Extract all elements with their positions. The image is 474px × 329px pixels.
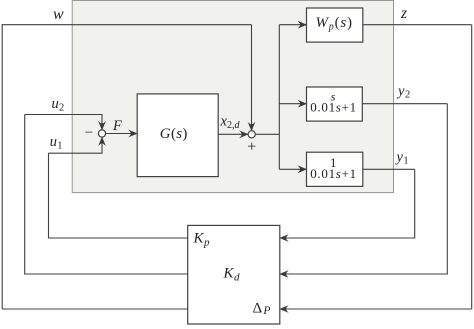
block Wp(s) (307, 8, 363, 42)
wire into s/(0.01s+1) (279, 103, 306, 105)
wire into Wp(s) (279, 24, 306, 26)
svg-text:u1: u1 (50, 134, 63, 151)
wire z right vertical down (471, 25, 473, 309)
arrow into Wp(s) (298, 21, 308, 29)
controller block K (188, 225, 280, 324)
wire bottom-left into controller port 3 (2, 308, 188, 310)
wire F from S1 to G(s) (106, 133, 138, 135)
arrow into controller Kd input (279, 270, 289, 278)
svg-text:F: F (112, 118, 122, 134)
svg-text:−: − (85, 125, 93, 141)
wire y1 output (363, 168, 415, 170)
wire S2 output to branch node (255, 133, 279, 135)
wire u1 left loop to controller port 1 (49, 153, 188, 238)
wire x2d from G(s) to S2 (218, 133, 248, 135)
svg-text:0.01s+1: 0.01s+1 (310, 99, 357, 114)
svg-text:y2: y2 (396, 84, 410, 101)
svg-text:0.01s+1: 0.01s+1 (310, 166, 357, 181)
wire w top horizontal (2, 24, 252, 26)
arrow into s/(0.01s+1) (298, 100, 308, 108)
arrow into junction S1 top (98, 121, 106, 131)
wire z bottom into controller port R3 (280, 308, 472, 310)
svg-text:w: w (53, 6, 64, 23)
summing junction S2 (248, 131, 255, 138)
arrow into summing junction S2 top (248, 122, 256, 132)
svg-text:u2: u2 (52, 96, 65, 113)
svg-text:Wp(s): Wp(s) (316, 15, 353, 33)
svg-text:+: + (247, 139, 256, 156)
wire branch vertical (278, 25, 280, 170)
svg-text:G(s): G(s) (160, 126, 188, 142)
wire z output (363, 24, 472, 26)
arrow into G(s) (128, 130, 138, 138)
arrow into controller Delta P input (279, 305, 289, 313)
arrow into 1/(0.01s+1) (298, 165, 308, 173)
svg-text:z: z (400, 5, 407, 22)
wire y2 loop down to controller port R2 (280, 104, 448, 274)
block s/(0.01s+1) (307, 87, 363, 121)
wire y1 loop down to controller port R1 (280, 169, 415, 238)
wire u2 left loop to controller port 2 (25, 115, 188, 275)
wire u1 horizontal into junction S1 bottom (49, 137, 103, 153)
wire y2 output (362, 103, 447, 105)
summing junction S1 (98, 130, 105, 137)
svg-text:y1: y1 (395, 150, 409, 167)
plant boundary shaded region (72, 1, 393, 193)
wire u2 horizontal into junction S1 top (25, 115, 102, 130)
wire w drop to summing junction S2 (251, 25, 253, 131)
wire w left vertical wrap (1, 25, 3, 309)
plant block G(s) (137, 94, 218, 177)
wire into 1/(0.01s+1) (279, 168, 306, 170)
arrow into controller Kp input (279, 234, 289, 242)
arrow into junction S1 bottom (98, 137, 106, 147)
block 1/(0.01s+1) (307, 152, 363, 186)
arrow into S2 left (239, 130, 249, 138)
